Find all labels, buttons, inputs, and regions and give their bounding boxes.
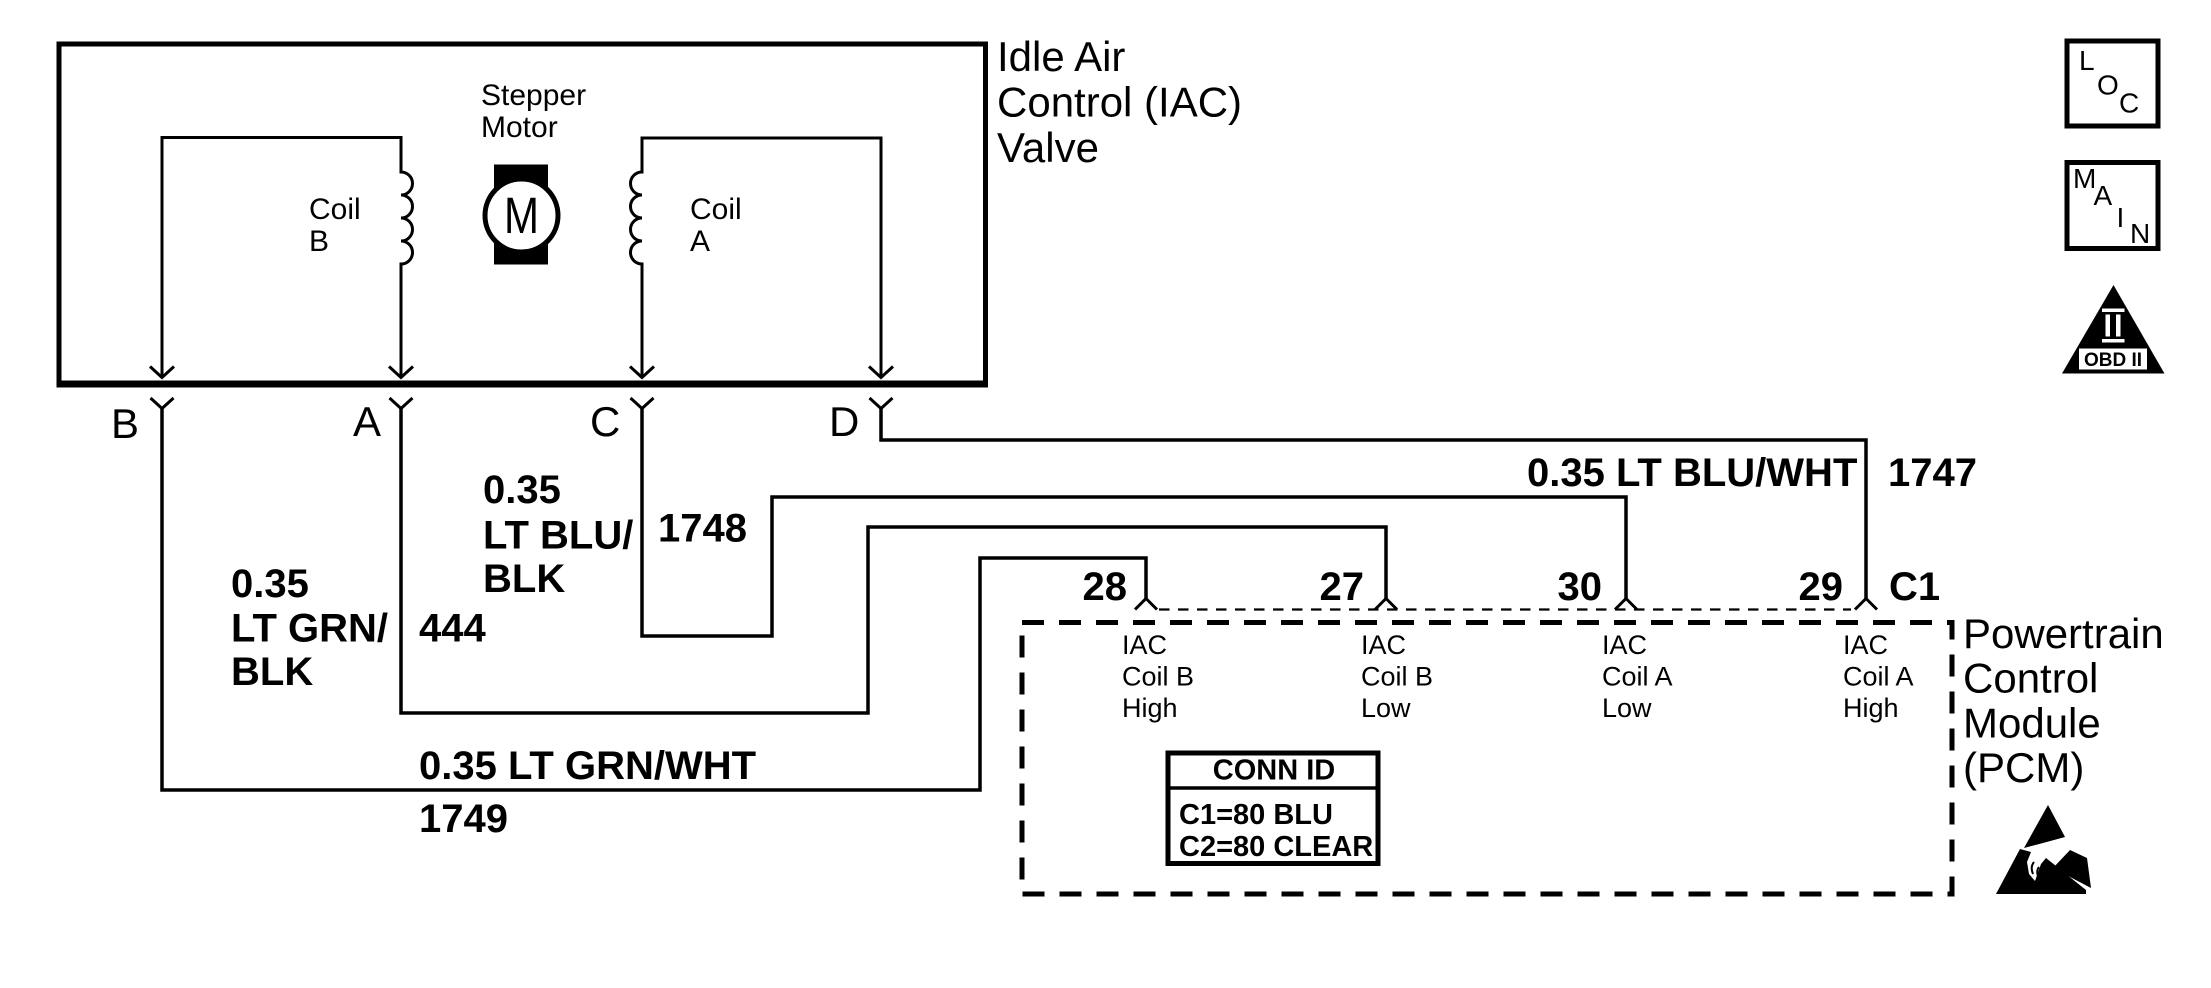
svg-text:D: D — [829, 398, 859, 445]
svg-text:IAC: IAC — [1843, 630, 1888, 660]
svg-text:0.35: 0.35 — [231, 562, 309, 606]
svg-text:Coil A: Coil A — [1843, 662, 1914, 692]
svg-text:1749: 1749 — [419, 797, 508, 841]
arrow at pin A — [389, 367, 413, 378]
IAC valve box bottom edge — [57, 381, 989, 388]
svg-text:Low: Low — [1361, 693, 1411, 723]
svg-text:OBD II: OBD II — [2084, 350, 2142, 371]
svg-text:Control (IAC): Control (IAC) — [997, 79, 1242, 126]
svg-text:Coil: Coil — [309, 193, 361, 226]
svg-text:0.35 LT BLU/WHT: 0.35 LT BLU/WHT — [1527, 451, 1857, 495]
svg-text:A: A — [690, 225, 710, 258]
svg-text:LT BLU/: LT BLU/ — [483, 514, 633, 558]
svg-text:BLK: BLK — [483, 557, 565, 601]
svg-text:BLK: BLK — [231, 650, 313, 694]
svg-text:B: B — [309, 225, 329, 258]
svg-text:0.35: 0.35 — [483, 468, 561, 512]
svg-text:C: C — [2119, 88, 2139, 119]
pin C connector — [631, 398, 654, 409]
CONN ID table — [1168, 753, 1378, 864]
svg-text:Coil A: Coil A — [1602, 662, 1673, 692]
svg-text:Valve: Valve — [997, 124, 1099, 171]
wire C to pin 30 — [642, 409, 1626, 637]
IAC valve box — [59, 44, 986, 384]
svg-text:1748: 1748 — [658, 507, 747, 551]
svg-text:27: 27 — [1320, 565, 1365, 609]
svg-text:IAC: IAC — [1122, 630, 1167, 660]
arrow at pin C — [630, 367, 654, 378]
svg-text:Powertrain: Powertrain — [1963, 610, 2164, 657]
svg-text:Stepper: Stepper — [481, 79, 586, 112]
svg-text:C: C — [590, 398, 620, 445]
svg-text:Coil: Coil — [690, 193, 742, 226]
wire A to pin 27 — [401, 409, 1386, 714]
svg-text:1747: 1747 — [1888, 451, 1977, 495]
svg-text:L: L — [2079, 45, 2095, 76]
stepper motor M — [485, 165, 558, 265]
coil A — [631, 138, 882, 377]
pin D connector — [870, 398, 893, 409]
svg-text:CONN ID: CONN ID — [1213, 755, 1335, 787]
svg-text:29: 29 — [1799, 565, 1844, 609]
svg-text:Motor: Motor — [481, 111, 558, 144]
svg-text:Low: Low — [1602, 693, 1652, 723]
LOC symbol — [2067, 41, 2158, 126]
wire B to pin 28 — [162, 409, 1146, 791]
pin 28 connector — [1135, 599, 1157, 610]
PCM module dashed box — [1022, 623, 1952, 895]
svg-text:B: B — [111, 400, 139, 447]
svg-text:(PCM): (PCM) — [1963, 744, 2084, 791]
svg-text:IAC: IAC — [1602, 630, 1647, 660]
wire D to pin 29 — [881, 409, 1866, 599]
svg-text:Coil B: Coil B — [1122, 662, 1194, 692]
ESD symbol — [1996, 805, 2091, 894]
svg-text:High: High — [1843, 693, 1899, 723]
svg-text:30: 30 — [1558, 565, 1603, 609]
pin 27 connector — [1375, 599, 1397, 610]
pin 29 connector — [1855, 599, 1877, 610]
svg-text:C1: C1 — [1889, 565, 1940, 609]
svg-text:A: A — [353, 398, 381, 445]
svg-text:Module: Module — [1963, 699, 2101, 746]
svg-text:0.35 LT GRN/WHT: 0.35 LT GRN/WHT — [419, 744, 756, 788]
svg-text:O: O — [2097, 70, 2119, 101]
svg-text:C1=80 BLU: C1=80 BLU — [1179, 799, 1333, 831]
MAIN symbol — [2067, 163, 2158, 250]
svg-text:Control: Control — [1963, 655, 2098, 702]
coil B — [162, 138, 413, 378]
svg-text:A: A — [2094, 180, 2113, 211]
pin A connector — [390, 398, 413, 409]
arrow at pin D — [869, 367, 893, 378]
pin B connector — [151, 398, 174, 409]
PCM pin strip dashed line — [1159, 608, 1851, 610]
pin 30 connector — [1615, 599, 1637, 610]
OBD II symbol — [2062, 285, 2165, 374]
svg-text:Idle Air: Idle Air — [997, 33, 1125, 80]
svg-text:LT GRN/: LT GRN/ — [231, 607, 388, 651]
arrow at pin B — [150, 367, 174, 378]
svg-text:444: 444 — [419, 607, 486, 651]
svg-text:I: I — [2117, 202, 2125, 233]
svg-text:IAC: IAC — [1361, 630, 1406, 660]
svg-text:High: High — [1122, 693, 1178, 723]
svg-text:M: M — [504, 187, 539, 244]
svg-text:28: 28 — [1083, 565, 1128, 609]
svg-text:C2=80 CLEAR: C2=80 CLEAR — [1179, 831, 1373, 863]
svg-text:Coil B: Coil B — [1361, 662, 1433, 692]
svg-text:N: N — [2130, 218, 2150, 249]
